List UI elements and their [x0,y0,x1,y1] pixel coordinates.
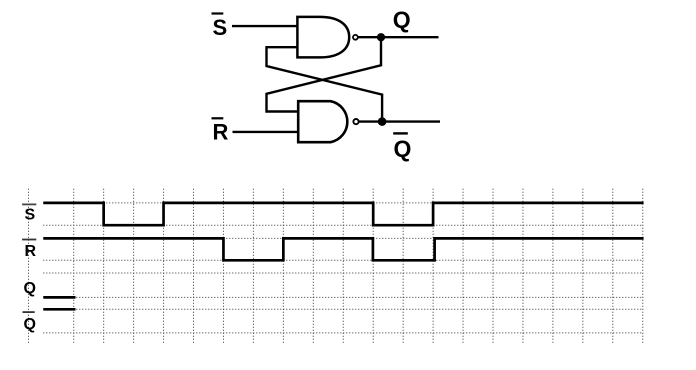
label S-bar timing [22,204,36,224]
label R-bar timing [22,239,36,260]
svg-text:Q: Q [24,316,36,333]
svg-text:Q: Q [24,280,36,297]
waveform Q-bar initial segment [43,308,75,311]
output bubble U1 [353,35,358,40]
svg-text:S: S [25,207,36,224]
svg-text:R: R [25,243,37,260]
label R-bar input [212,117,229,144]
wire Q-bar output [382,120,440,122]
wire cross-coupling node Q to U2 upper input [267,37,382,111]
wire S-bar to U1 [232,25,298,27]
label Q-bar output [393,132,411,161]
label S-bar input [212,12,228,40]
node Q junction [377,33,385,41]
timing grid horizontal dotted lines [43,203,643,333]
svg-text:R: R [213,120,229,145]
wire U1 output to node Q [358,36,382,38]
node Q-bar junction [378,117,387,126]
svg-text:S: S [213,15,228,40]
label Q-bar timing [23,311,36,333]
wire U2 output to node Q-bar [358,120,382,122]
nand gate U1 [297,17,349,58]
timing grid vertical dotted lines [29,189,643,344]
output bubble U2 [353,119,358,124]
waveform Q initial segment [43,296,75,299]
svg-text:Q: Q [393,6,411,32]
waveform R-bar [43,238,643,260]
wire feedback to U1 lower input [267,47,383,121]
nand gate U2 [298,101,347,142]
wire R-bar to U2 [233,131,299,133]
svg-text:Q: Q [394,136,412,162]
waveform S-bar [43,203,643,225]
wire Q output [381,36,439,38]
